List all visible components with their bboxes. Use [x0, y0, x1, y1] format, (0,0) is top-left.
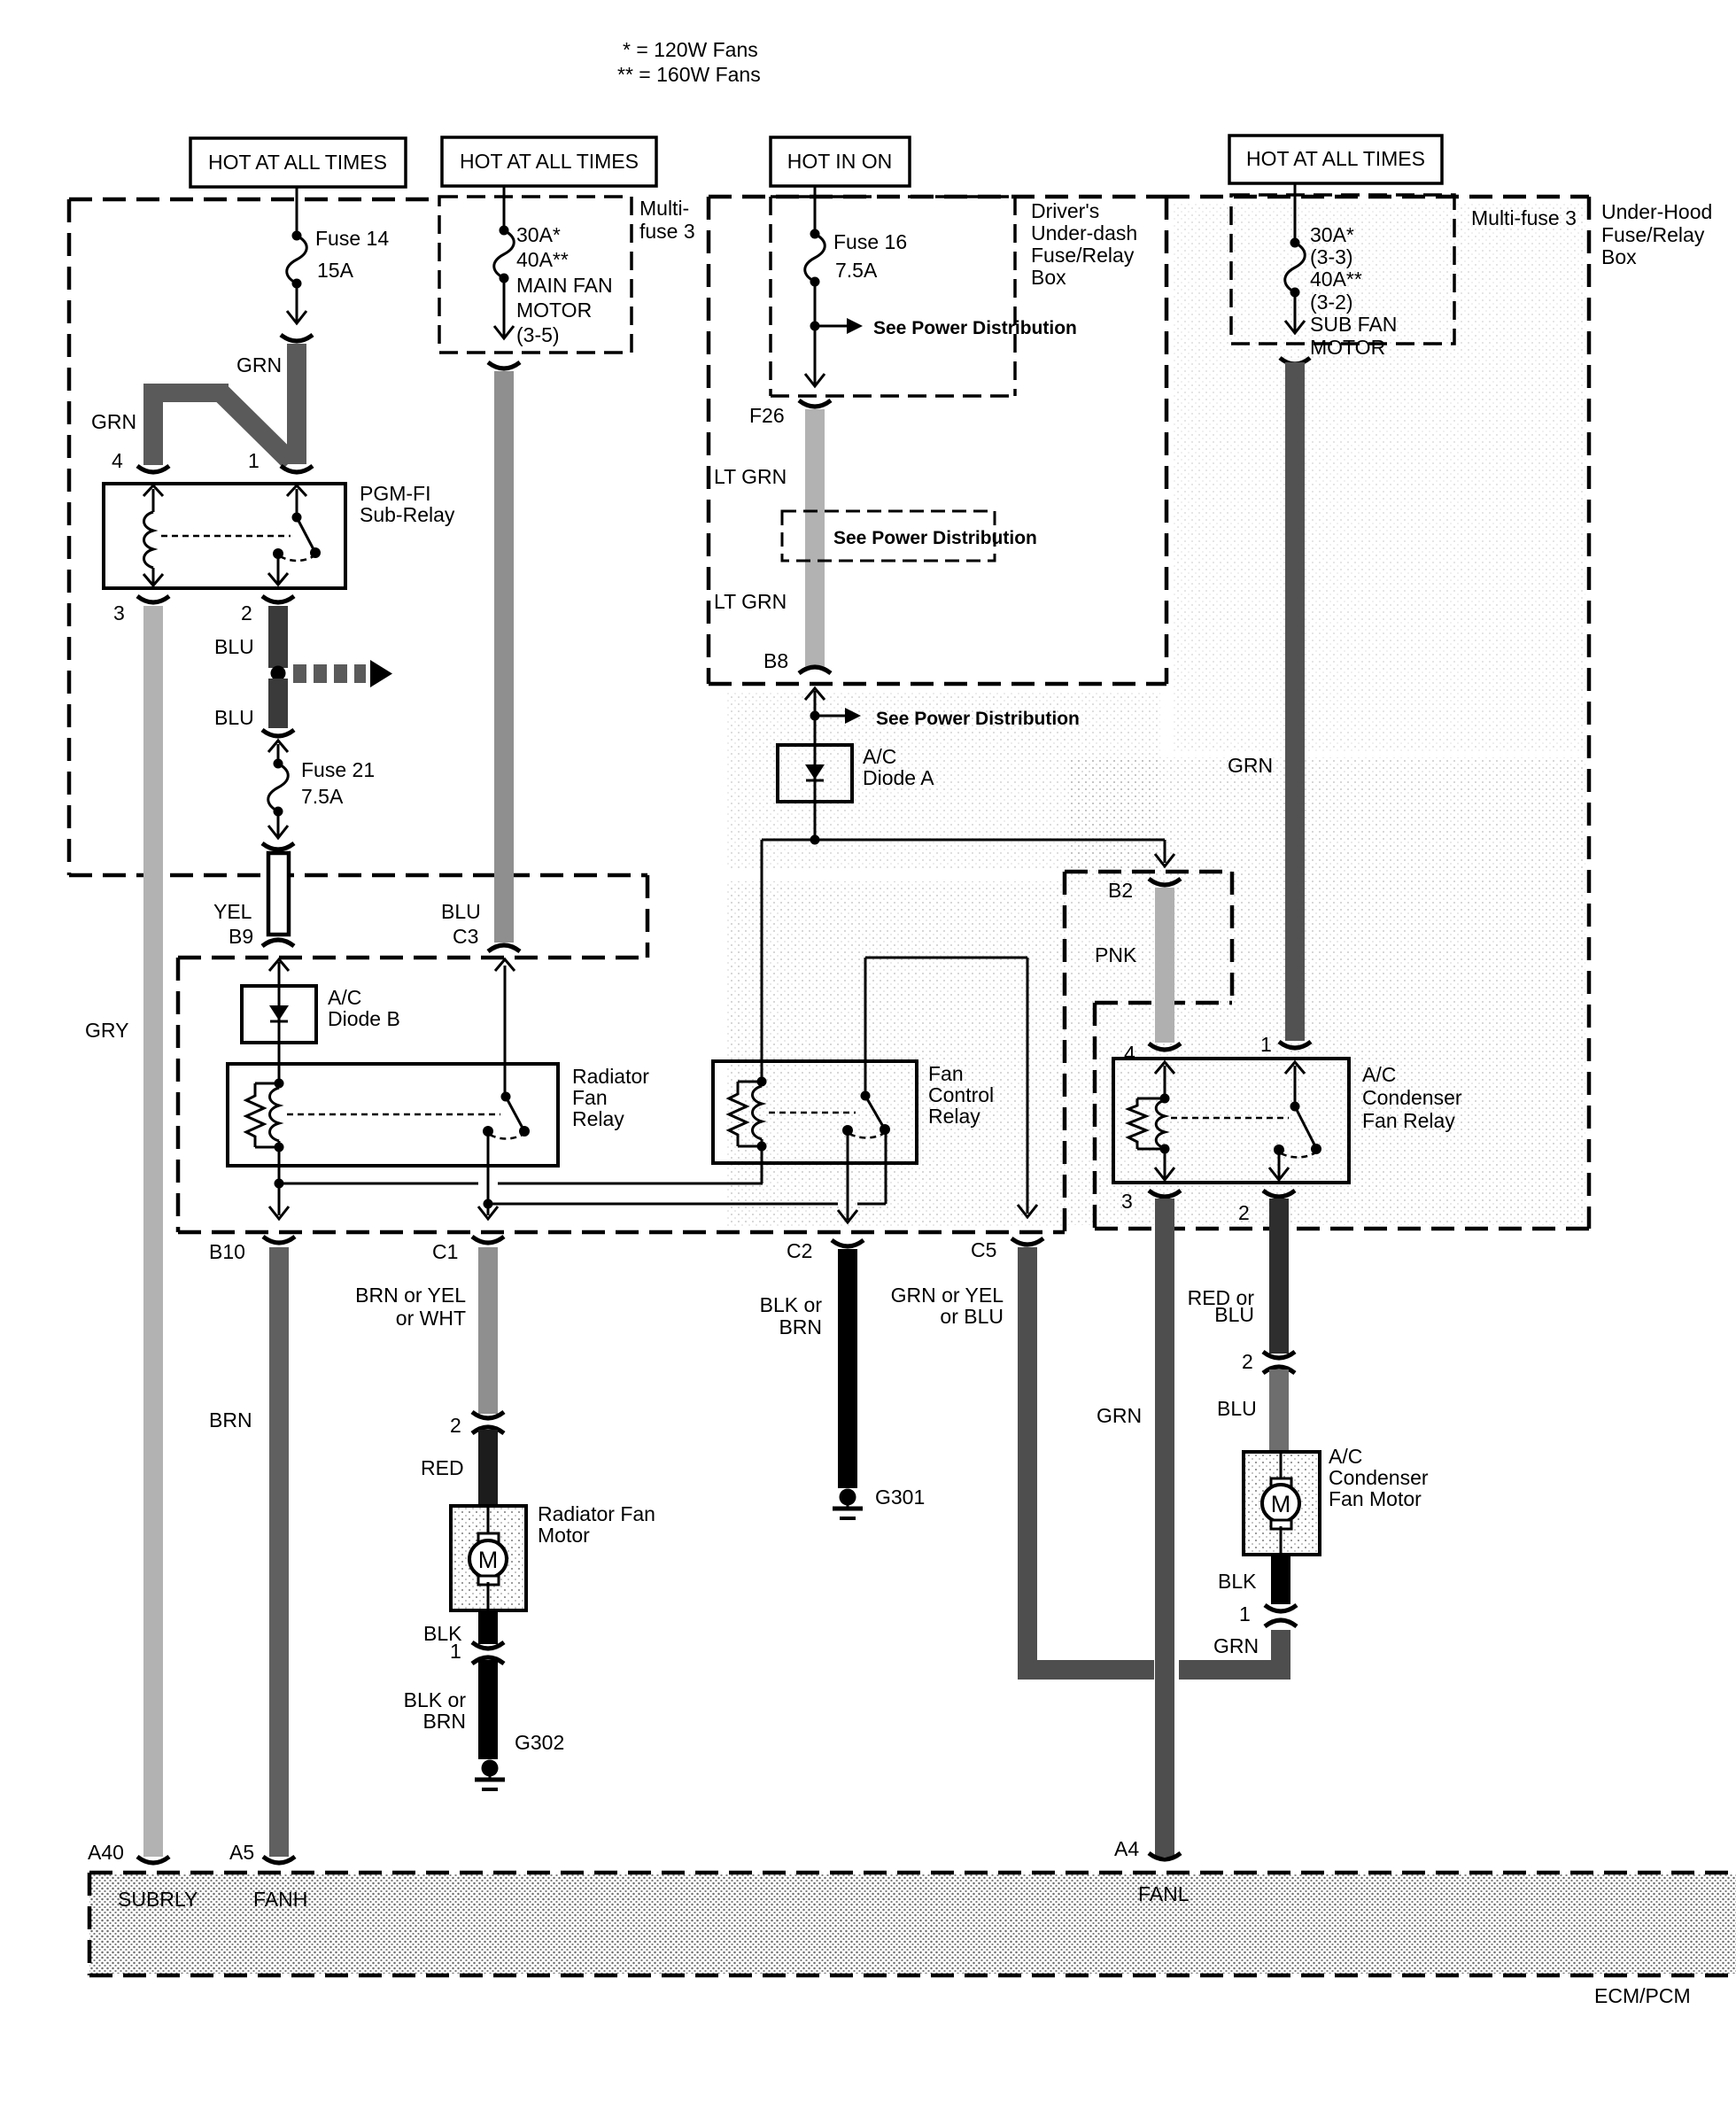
radiator relay coil — [246, 1079, 284, 1167]
connector C5 — [1011, 1238, 1043, 1245]
arrow up into relay compartment at C3 — [495, 959, 515, 971]
label Driver's Under-dash Fuse/Relay Box — [1031, 199, 1137, 289]
condenser coil-switch dashed link — [1171, 1117, 1289, 1120]
svg-text:See Power Distribution: See Power Distribution — [876, 709, 1080, 729]
radiator relay switch — [483, 966, 530, 1166]
svg-text:7.5A: 7.5A — [301, 785, 344, 808]
svg-text:(3-5): (3-5) — [516, 323, 560, 346]
condenser relay switch — [1269, 1062, 1321, 1180]
arrow down at B2 — [1155, 854, 1174, 866]
fan control relay coil — [729, 1077, 767, 1184]
ground G302 — [475, 1760, 505, 1790]
connector pin 1 condenser relay — [1279, 1042, 1311, 1048]
relay K3 A/C Condenser Fan Relay box — [1113, 1059, 1349, 1183]
svg-text:Multi-: Multi- — [639, 197, 689, 220]
svg-text:Fan Motor: Fan Motor — [1329, 1487, 1422, 1510]
wire C1 to motor connector 2 — [478, 1247, 498, 1414]
branch junction to See Power Distribution (lower) — [810, 708, 862, 724]
svg-text:G301: G301 — [875, 1486, 925, 1509]
connector pin 1 PGM-FI relay — [281, 466, 313, 472]
diode D2 A/C Diode B — [242, 986, 316, 1043]
wire main fan feed to C3 — [494, 371, 514, 943]
PGM-FI coil-switch dashed link — [161, 535, 291, 538]
svg-text:C1: C1 — [432, 1240, 458, 1263]
motor M1 Radiator Fan Motor — [451, 1506, 526, 1610]
svg-text:GRN: GRN — [91, 410, 136, 433]
fuse FB (30A* 3-3 / 40A** 3-2 SUB FAN MOTOR) — [1285, 238, 1306, 334]
fan control relay switch — [842, 1061, 890, 1220]
connector A40 — [137, 1857, 169, 1863]
wire GRN rise to motor pin 1 — [1271, 1630, 1290, 1680]
branch to See Power Distribution (in driver's box) — [810, 318, 864, 334]
wire horizontal run to B2 and fan control coil — [762, 839, 1165, 842]
svg-text:BLU: BLU — [441, 900, 481, 923]
under-dash fuse box outline (left, dashed) — [69, 199, 647, 958]
connector pin 2 — [262, 596, 294, 602]
svg-text:1: 1 — [1239, 1602, 1251, 1625]
fuse F14 (Fuse 14 15A) — [287, 231, 307, 324]
svg-text:fuse 3: fuse 3 — [639, 220, 695, 243]
connector F26 — [799, 400, 831, 407]
wire BLU pin2 lower — [268, 679, 288, 728]
connector above fuse 21 — [262, 730, 294, 736]
wire BLU to condenser motor — [1269, 1369, 1289, 1452]
wire GRY pin3 down to A40 — [143, 606, 163, 1857]
svg-text:B2: B2 — [1108, 879, 1133, 902]
svg-text:MOTOR: MOTOR — [516, 299, 592, 322]
wire GRN C5 horizontal run to condenser motor — [1018, 1660, 1154, 1680]
arrow down at C2 — [838, 1210, 857, 1222]
svg-text:15A: 15A — [317, 259, 354, 282]
connector B8 — [799, 667, 831, 673]
wire LT GRN F26 to B8 — [805, 409, 825, 666]
svg-text:See Power Distribution: See Power Distribution — [873, 318, 1077, 338]
svg-text:B8: B8 — [763, 649, 788, 672]
connector pin 2 condenser relay — [1263, 1191, 1295, 1197]
arrow up at B8 below box edge — [805, 688, 825, 700]
wire C1-junction to fan control relay contact (horizontal) — [488, 1203, 838, 1206]
PGM-FI switch S1 — [268, 485, 321, 585]
svg-text:Fuse 14: Fuse 14 — [315, 227, 389, 250]
svg-text:BRN: BRN — [209, 1408, 252, 1431]
connector at multi-fuse output — [488, 362, 520, 369]
svg-text:Fuse/Relay: Fuse/Relay — [1601, 223, 1705, 246]
svg-text:Motor: Motor — [538, 1524, 590, 1547]
svg-text:Under-dash: Under-dash — [1031, 221, 1137, 244]
splice node with off-page arrow — [271, 660, 393, 687]
header box HOT AT ALL TIMES (left) — [190, 138, 406, 187]
svg-text:HOT AT ALL TIMES: HOT AT ALL TIMES — [1246, 147, 1425, 170]
inline connector 1 (condenser fan motor) — [1265, 1605, 1297, 1626]
svg-text:MAIN FAN: MAIN FAN — [516, 274, 613, 297]
svg-text:A/C: A/C — [863, 745, 896, 768]
svg-text:C3: C3 — [453, 925, 478, 948]
header box HOT AT ALL TIMES (right) — [1229, 136, 1442, 183]
connector pin 3 — [137, 596, 169, 602]
wire feed from header1 — [296, 187, 298, 236]
connector A4 — [1149, 1853, 1181, 1859]
svg-text:Fan: Fan — [572, 1086, 608, 1109]
wire fan control switch common up-over to C5 — [865, 958, 1027, 1214]
svg-text:A/C: A/C — [1329, 1445, 1362, 1468]
wire feed from header3 — [814, 186, 817, 234]
connector C3 — [488, 945, 520, 951]
wire BLK or BRN to G302 — [478, 1660, 498, 1759]
svg-text:BLK or: BLK or — [404, 1688, 467, 1711]
svg-text:See Power Distribution: See Power Distribution — [833, 528, 1037, 548]
svg-text:Under-Hood: Under-Hood — [1601, 200, 1712, 223]
connector A5 — [263, 1857, 295, 1863]
condenser relay coil — [1128, 1062, 1174, 1180]
inline connector 2 (radiator fan motor) — [472, 1412, 504, 1433]
svg-text:PGM-FI: PGM-FI — [360, 482, 431, 505]
wire GRN from fuse 14 to relay pin 1 — [287, 344, 306, 464]
svg-text:M: M — [1271, 1491, 1291, 1517]
svg-text:Diode B: Diode B — [328, 1007, 400, 1030]
svg-text:B9: B9 — [229, 925, 253, 948]
relay compartment box (dashed) — [178, 872, 1065, 1232]
svg-text:or WHT: or WHT — [396, 1307, 466, 1330]
svg-text:Fuse 21: Fuse 21 — [301, 758, 375, 781]
ground G301 — [833, 1489, 863, 1519]
svg-text:BRN: BRN — [779, 1315, 822, 1338]
svg-text:2: 2 — [1242, 1350, 1253, 1373]
connector C1 — [472, 1237, 504, 1243]
svg-text:Multi-fuse 3: Multi-fuse 3 — [1471, 206, 1577, 229]
svg-text:Sub-Relay: Sub-Relay — [360, 503, 455, 526]
connector B9 (inline connector symbol) — [262, 843, 294, 946]
svg-text:(3-2): (3-2) — [1310, 291, 1353, 314]
svg-text:RED: RED — [421, 1456, 464, 1479]
fuse F16 (Fuse 16 7.5A) — [805, 229, 825, 387]
svg-text:1: 1 — [450, 1640, 461, 1663]
svg-text:40A**: 40A** — [516, 248, 569, 271]
junction B10/fan-control coil — [275, 1179, 284, 1189]
svg-text:BLU: BLU — [1214, 1303, 1254, 1326]
connector B10 — [263, 1237, 295, 1243]
svg-text:HOT IN ON: HOT IN ON — [787, 150, 892, 173]
svg-text:LT GRN: LT GRN — [714, 590, 787, 613]
svg-text:BLU: BLU — [214, 635, 254, 658]
svg-text:C5: C5 — [971, 1238, 996, 1261]
svg-text:7.5A: 7.5A — [835, 259, 878, 282]
svg-text:GRN or YEL: GRN or YEL — [891, 1284, 1004, 1307]
svg-text:Box: Box — [1031, 266, 1066, 289]
svg-text:A4: A4 — [1114, 1837, 1139, 1860]
svg-text:BLK: BLK — [1218, 1570, 1257, 1593]
svg-text:Fan: Fan — [928, 1062, 964, 1085]
inline connector 1 (radiator fan motor) — [472, 1642, 504, 1664]
svg-text:A/C: A/C — [1362, 1063, 1396, 1086]
connector at sub fan fuse output — [1280, 358, 1310, 364]
svg-text:BLU: BLU — [1217, 1397, 1257, 1420]
svg-text:* = 120W Fans: * = 120W Fans — [623, 38, 758, 61]
relay K2 Fan Control Relay box — [713, 1061, 917, 1163]
arrow up into relay compartment at B9 — [269, 959, 289, 971]
fuse 16 inner box (dashed) — [771, 197, 1015, 396]
motor M2 A/C Condenser Fan Motor — [1244, 1452, 1320, 1555]
svg-text:GRN: GRN — [1213, 1634, 1259, 1657]
svg-text:ECM/PCM: ECM/PCM — [1594, 1984, 1691, 2007]
svg-text:Diode A: Diode A — [863, 766, 934, 789]
svg-text:SUB FAN: SUB FAN — [1310, 313, 1397, 336]
connector pin 4 PGM-FI relay — [137, 466, 169, 472]
under-hood fuse/relay box (right, dashed) — [1065, 197, 1589, 1229]
wire GRN splice: pin4 vertical — [143, 387, 163, 465]
svg-text:C2: C2 — [787, 1239, 812, 1262]
svg-text:F26: F26 — [749, 404, 785, 427]
svg-text:Relay: Relay — [928, 1105, 980, 1128]
svg-text:Fuse/Relay: Fuse/Relay — [1031, 244, 1135, 267]
wire feed from header2 — [503, 186, 506, 230]
node diode A junction — [810, 835, 820, 845]
svg-text:BLU: BLU — [214, 706, 254, 729]
background speckle regions — [726, 881, 1067, 1227]
svg-text:40A**: 40A** — [1310, 268, 1362, 291]
svg-text:Box: Box — [1601, 245, 1637, 268]
svg-text:BLK or: BLK or — [760, 1293, 823, 1316]
svg-text:30A*: 30A* — [1310, 223, 1354, 246]
wire BLK below condenser motor — [1271, 1555, 1290, 1604]
diode D1 A/C Diode A — [778, 745, 852, 802]
svg-text:G302: G302 — [515, 1731, 564, 1754]
connector C2 — [832, 1240, 864, 1246]
label 30A* (3-3) 40A** (3-2) SUB FAN MOTOR — [1310, 223, 1397, 359]
wire junction to fan control coil (horizontal) — [279, 1183, 478, 1185]
driver's under-dash fuse/relay box (dashed) — [709, 197, 1166, 684]
wire C1 from switch, junction — [487, 1166, 490, 1215]
wire RED to radiator fan motor — [478, 1430, 498, 1508]
wire radiator coil to B10 — [278, 1166, 281, 1215]
svg-text:4: 4 — [1124, 1042, 1135, 1065]
header box HOT IN ON — [771, 137, 910, 186]
svg-text:GRN: GRN — [236, 353, 282, 376]
svg-text:2: 2 — [450, 1414, 461, 1437]
svg-text:1: 1 — [248, 449, 260, 472]
svg-text:A5: A5 — [229, 1841, 254, 1864]
wire feed from header4 — [1294, 183, 1297, 243]
svg-text:Condenser: Condenser — [1362, 1086, 1462, 1109]
wire GRN pin3 to A4 — [1155, 1199, 1174, 1857]
svg-text:or BLU: or BLU — [940, 1305, 1004, 1328]
svg-text:FANL: FANL — [1138, 1882, 1190, 1905]
arrow down at C1 — [478, 1206, 498, 1219]
wire B9 to diode B — [278, 962, 281, 986]
wire BRN B10 to A5 — [269, 1247, 289, 1857]
wire BLK C2 to G301 — [838, 1249, 857, 1488]
wire GRN C5 down — [1018, 1247, 1037, 1672]
ECM/PCM box — [89, 1873, 1736, 1975]
svg-text:M: M — [478, 1547, 499, 1573]
connector B2 — [1149, 879, 1181, 885]
svg-text:BRN or YEL: BRN or YEL — [355, 1284, 466, 1307]
svg-text:Radiator Fan: Radiator Fan — [538, 1502, 655, 1525]
svg-text:Fuse 16: Fuse 16 — [833, 230, 907, 253]
svg-text:3: 3 — [1121, 1190, 1133, 1213]
svg-text:2: 2 — [241, 601, 252, 625]
svg-text:Driver's: Driver's — [1031, 199, 1099, 222]
fuse FA (30A*/40A** MAIN FAN MOTOR 3-5) — [494, 226, 515, 339]
svg-text:(3-3): (3-3) — [1310, 245, 1353, 268]
fan control coil-switch dashed link — [769, 1112, 856, 1114]
svg-text:HOT AT ALL TIMES: HOT AT ALL TIMES — [208, 151, 387, 174]
header box HOT AT ALL TIMES (second) — [442, 137, 656, 186]
wire GRN splice: diagonal — [221, 393, 291, 462]
wire PNK B2 to condenser relay pin 4 — [1155, 888, 1174, 1043]
svg-text:1: 1 — [1260, 1033, 1272, 1056]
svg-text:YEL: YEL — [213, 900, 252, 923]
wire diode A to junction — [814, 802, 817, 840]
arrow up to connector — [268, 741, 288, 752]
multi-fuse 3 box (left, dashed) — [439, 197, 632, 353]
wire GRN sub fan feed to condenser relay pin 1 — [1285, 362, 1305, 1041]
svg-text:** = 160W Fans: ** = 160W Fans — [617, 63, 761, 86]
svg-text:Condenser: Condenser — [1329, 1466, 1429, 1489]
svg-text:FANH: FANH — [253, 1888, 307, 1911]
arrow down at B10 — [269, 1206, 289, 1219]
svg-text:B10: B10 — [209, 1240, 245, 1263]
svg-text:SUBRLY: SUBRLY — [118, 1888, 198, 1911]
wire RED/BLU pin2 down — [1269, 1199, 1289, 1354]
fuse F21 (Fuse 21 7.5A) — [268, 744, 289, 838]
svg-text:Fan Relay: Fan Relay — [1362, 1109, 1455, 1132]
wire diode B to radiator fan relay coil — [278, 1043, 281, 1083]
connector at fuse 14 output — [281, 335, 313, 341]
svg-text:3: 3 — [113, 601, 125, 625]
inline connector 2 (condenser fan motor) — [1263, 1352, 1295, 1373]
svg-text:HOT AT ALL TIMES: HOT AT ALL TIMES — [460, 150, 639, 173]
connector pin 4 condenser relay — [1149, 1043, 1181, 1050]
svg-text:Radiator: Radiator — [572, 1065, 649, 1088]
arrow down at C5 — [1018, 1205, 1037, 1217]
svg-text:Relay: Relay — [572, 1107, 624, 1130]
svg-text:Control: Control — [928, 1083, 994, 1106]
wire GRN splice: top horizontal — [143, 384, 229, 402]
svg-text:A40: A40 — [88, 1841, 124, 1864]
svg-text:30A*: 30A* — [516, 223, 561, 246]
relay K1 Radiator Fan Relay box — [228, 1064, 558, 1166]
label Under-Hood Fuse/Relay Box — [1601, 200, 1712, 268]
wire BLK below motor — [478, 1610, 498, 1644]
label 30A* 40A** MAIN FAN MOTOR (3-5) — [516, 223, 613, 346]
svg-text:2: 2 — [1238, 1201, 1250, 1224]
PGM-FI coil L1 — [143, 485, 163, 586]
connector pin 3 condenser relay — [1149, 1191, 1181, 1197]
wire BLU pin2 upper — [268, 606, 288, 668]
svg-text:LT GRN: LT GRN — [714, 465, 787, 488]
svg-text:A/C: A/C — [328, 986, 361, 1009]
svg-text:GRN: GRN — [1097, 1404, 1142, 1427]
wire B8 to diode A with branch — [814, 691, 817, 745]
multi-fuse 3 box (right, dashed) — [1231, 195, 1454, 344]
relay U1 PGM-FI Sub-Relay box — [104, 484, 345, 588]
see power distribution box (dashed) — [782, 511, 995, 561]
svg-text:GRN: GRN — [1228, 754, 1273, 777]
svg-text:PNK: PNK — [1095, 943, 1137, 966]
svg-text:GRY: GRY — [85, 1019, 128, 1042]
radiator relay coil-switch dashed link — [287, 1113, 500, 1116]
svg-text:BRN: BRN — [422, 1710, 466, 1733]
svg-text:MOTOR: MOTOR — [1310, 336, 1385, 359]
svg-text:4: 4 — [112, 449, 123, 472]
